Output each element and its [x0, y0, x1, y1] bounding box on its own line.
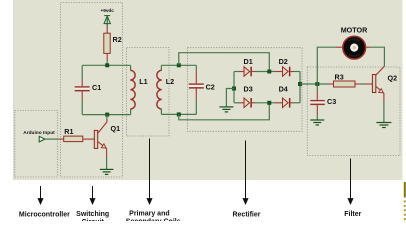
wire C1 bottom pin — [81, 91, 83, 100]
annotation arrow Microcontroller — [38, 186, 43, 204]
svg-text:+9vdc: +9vdc — [100, 8, 114, 13]
svg-text:R2: R2 — [113, 35, 122, 44]
ground (C3) — [310, 120, 324, 125]
resistor R1 — [64, 136, 83, 142]
dashed box Filter — [307, 67, 400, 156]
svg-text:D4: D4 — [279, 85, 288, 94]
svg-text:C1: C1 — [92, 83, 101, 92]
svg-text:C2: C2 — [206, 82, 215, 91]
input terminal — [39, 136, 45, 142]
annotation arrow Rectifier — [243, 141, 248, 204]
svg-text:Filter: Filter — [344, 211, 361, 218]
svg-text:Q1: Q1 — [111, 124, 121, 133]
capacitor C1 — [75, 86, 90, 88]
right edge yellow mark — [404, 182, 406, 198]
capacitor C2 — [189, 83, 204, 85]
annotation arrow Switching — [90, 186, 95, 204]
inductor L1 — [130, 65, 135, 114]
node E (D1-D2) — [267, 70, 271, 74]
svg-text:R1: R1 — [64, 127, 73, 136]
resistor R2 — [104, 33, 110, 53]
wire bridge upper row — [234, 71, 240, 73]
svg-text:R3: R3 — [335, 73, 344, 82]
wire R2 to node A — [106, 53, 108, 60]
svg-text:Rectifier: Rectifier — [232, 211, 260, 218]
motor M1 — [343, 36, 366, 59]
svg-text:MOTOR: MOTOR — [341, 25, 368, 34]
diode D3 — [244, 98, 252, 108]
svg-text:Secondary Coils: Secondary Coils — [126, 219, 181, 221]
wire R1 to Q1 base — [83, 138, 95, 140]
svg-text:Q2: Q2 — [388, 73, 398, 82]
wire primary bottom rail — [82, 114, 130, 116]
wire primary top rail — [82, 64, 130, 66]
diode D1 — [244, 67, 252, 77]
inductor L2 — [157, 65, 162, 114]
wire C2 top pin — [195, 65, 197, 72]
svg-text:Microcontroller: Microcontroller — [19, 211, 70, 218]
wire bottom link to bridge — [179, 103, 269, 120]
svg-text:Primary and: Primary and — [129, 210, 169, 217]
motor right wire — [366, 46, 371, 48]
wire Q2 emitter to ground — [383, 93, 385, 102]
svg-text:L2: L2 — [166, 77, 174, 86]
svg-text:Circuit: Circuit — [82, 219, 105, 221]
wire terminal to R1 — [45, 138, 59, 140]
diode D4 — [283, 98, 291, 108]
dashed box Rectifier — [188, 48, 303, 132]
wire bridge right vertical — [299, 72, 301, 103]
svg-text:L1: L1 — [139, 77, 147, 86]
wire Q1 emitter to ground — [106, 148, 108, 157]
ground (Q1) — [100, 169, 114, 174]
node A — [105, 63, 109, 67]
left edge line — [13, 0, 15, 180]
transistor Q2 — [372, 66, 384, 93]
ground (bridge) — [219, 107, 233, 112]
node F (D3-D4) — [267, 101, 271, 105]
svg-text:Switching: Switching — [76, 211, 109, 218]
motor riser wire — [317, 47, 336, 84]
power terminal symbol — [104, 16, 110, 24]
svg-text:C3: C3 — [327, 97, 336, 106]
node H (output) — [298, 82, 302, 86]
wire ground tap — [226, 89, 234, 107]
wire bridge left vertical — [233, 72, 235, 103]
dashed box Switching Circuit — [61, 3, 123, 178]
svg-text:D1: D1 — [244, 57, 253, 66]
wire power to R2 — [106, 17, 108, 27]
ground (Q2) — [376, 123, 391, 128]
wire R3 to Q2 base — [355, 83, 361, 85]
annotation arrow Coils — [147, 139, 152, 204]
svg-text:Arduino Input: Arduino Input — [23, 130, 55, 136]
wire Q1 collector — [106, 115, 108, 120]
dashed box Microcontroller — [15, 111, 58, 178]
diode D2 — [283, 67, 291, 77]
node G — [232, 87, 236, 91]
node B — [105, 113, 109, 117]
node I (C3/R3) — [315, 82, 319, 86]
node D — [177, 112, 181, 116]
wire bridge lower row — [234, 102, 240, 104]
wire output to filter — [300, 83, 329, 85]
wire secondary top rail — [161, 64, 196, 66]
resistor R3 — [334, 81, 356, 87]
svg-text:D3: D3 — [244, 85, 253, 94]
wire C1 top pin — [81, 65, 83, 79]
node C — [177, 63, 181, 67]
wire C2 bottom pin — [195, 89, 197, 100]
wire C3 bottom pin — [316, 105, 318, 114]
wire secondary bottom rail — [161, 113, 196, 115]
capacitor C3 — [310, 100, 325, 102]
svg-text:D2: D2 — [279, 57, 288, 66]
wire riser to bridge top — [179, 53, 269, 72]
dashed box Primary and Secondary Coils — [127, 48, 170, 137]
annotation arrow Filter — [348, 159, 353, 204]
transistor Q1 — [94, 122, 107, 148]
wire C3 top pin — [316, 84, 318, 91]
